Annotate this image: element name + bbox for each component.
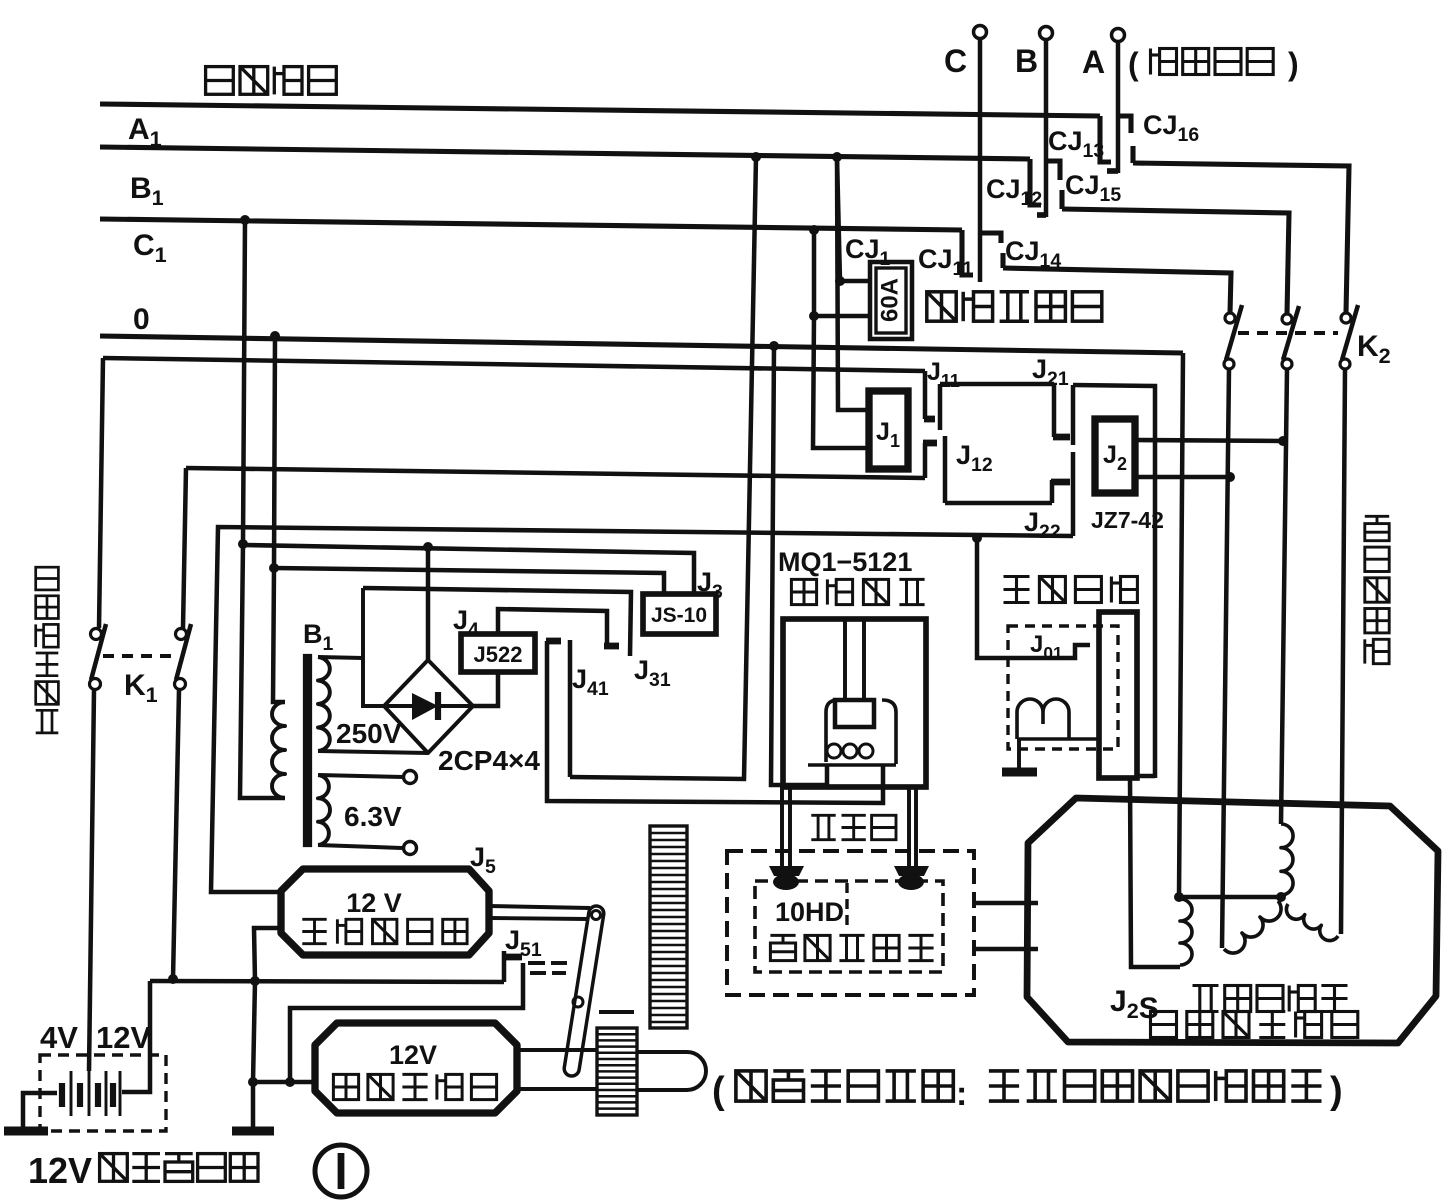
svg-text:250V: 250V bbox=[336, 718, 402, 749]
contact CJ15 bbox=[1046, 161, 1060, 180]
svg-text:12V: 12V bbox=[389, 1040, 437, 1070]
transformer 250V secondary bbox=[318, 657, 330, 751]
K1 linkage dashed bbox=[103, 654, 171, 658]
wire to ground bbox=[251, 1082, 256, 1128]
wire 0 drop to magnet coil bbox=[769, 341, 779, 351]
wire J2 coil top bbox=[1135, 440, 1283, 441]
wire B1 drop to J1 bbox=[813, 316, 869, 448]
wire K1-left upper bbox=[99, 358, 103, 628]
valve stem left bbox=[780, 787, 784, 866]
wire to starter motor bbox=[253, 981, 313, 1082]
diesel engine inner dashed box bbox=[755, 881, 943, 972]
valve head left bbox=[769, 866, 804, 876]
wire bridge DC out to J522 bbox=[473, 672, 498, 706]
svg-text:6.3V: 6.3V bbox=[344, 801, 402, 832]
wire ladder top edge bbox=[940, 382, 1054, 387]
relay J2 box bbox=[1095, 419, 1135, 493]
magnet plunger stem bbox=[843, 621, 847, 700]
ground battery bbox=[4, 1126, 48, 1135]
label: grid supply 电网供电 bbox=[206, 67, 337, 95]
wire J22 line to J5 bbox=[211, 527, 1073, 892]
relay contact J01 dashed box bbox=[1008, 626, 1118, 749]
svg-text:12V: 12V bbox=[28, 1150, 92, 1191]
wire bridge AC left riser bbox=[363, 588, 384, 706]
switch K2 pole 1 bbox=[1225, 313, 1235, 323]
contact J31 bbox=[604, 643, 619, 650]
contact CJ13 A-hook bbox=[1107, 168, 1118, 174]
svg-text:C: C bbox=[944, 43, 967, 79]
contact CJ14 bbox=[980, 233, 1001, 243]
pinion shaft capsule bbox=[637, 1052, 706, 1090]
wire ladder bottom edge bbox=[945, 501, 1052, 506]
wire 6.3V top lead bbox=[318, 775, 403, 777]
generator star point wire bbox=[1179, 895, 1281, 900]
contact J41 bbox=[546, 638, 561, 645]
wire A1 tap to 60A bbox=[832, 152, 842, 162]
wire bell bottom to J21 drop bbox=[1137, 774, 1155, 779]
transformer core bbox=[304, 655, 311, 846]
starter motor box bbox=[315, 1023, 517, 1113]
flywheel gear bbox=[650, 826, 687, 1028]
wire B1 line to JS-10 bbox=[244, 545, 694, 594]
terminal B bbox=[1040, 27, 1053, 40]
wire J5 to lever 1 bbox=[489, 906, 590, 908]
wire bus A1 bbox=[100, 147, 1030, 159]
label AC contactor 交流接触器 bbox=[927, 292, 1102, 321]
svg-text:B: B bbox=[1015, 43, 1038, 79]
svg-text:60A: 60A bbox=[876, 278, 903, 322]
contact CJ12 (bus A1 to load B) bbox=[1030, 159, 1041, 205]
label 高速柴油机 bbox=[770, 935, 933, 960]
svg-text:J522: J522 bbox=[474, 642, 523, 667]
switch K1 pole 2 bbox=[176, 629, 187, 640]
wire J522 top to J31 bbox=[498, 609, 607, 646]
wire K2-1 down to generator bbox=[1222, 369, 1229, 948]
wire 0 drop into generator bbox=[1179, 353, 1183, 897]
wire 250V bottom lead to bridge bbox=[318, 751, 428, 753]
wire J5 to lever 2 bbox=[489, 918, 587, 919]
wire load phase A drop bbox=[1116, 40, 1121, 173]
wire K2-2 down to generator bbox=[1281, 369, 1287, 824]
contact J12 bbox=[923, 440, 937, 447]
transformer 6.3V secondary bbox=[318, 775, 330, 845]
figure number 1 circled bbox=[315, 1145, 367, 1197]
svg-text:JS-10: JS-10 bbox=[651, 604, 707, 627]
contact J51 bbox=[502, 951, 507, 982]
svg-text:12V: 12V bbox=[96, 1020, 151, 1055]
wire A1 drop to J1 bbox=[837, 157, 869, 410]
contact J11 bbox=[923, 371, 928, 419]
wire CJ14 to K2 left bbox=[1003, 268, 1231, 313]
wire J21 to right drop bbox=[1073, 385, 1155, 778]
wire A1 drop to J41 bbox=[751, 152, 761, 162]
wire battery 12V line bbox=[150, 981, 504, 982]
wire K2-3 down to generator bbox=[1341, 369, 1345, 934]
relay J3 JS-10 box bbox=[643, 594, 716, 634]
battery dashed box bbox=[40, 1055, 166, 1131]
wire load phase C drop bbox=[978, 37, 983, 282]
svg-text:10HD: 10HD bbox=[775, 897, 844, 927]
svg-text:0: 0 bbox=[133, 303, 150, 336]
terminal C bbox=[974, 26, 987, 39]
wire K1-right feed to J12 bbox=[186, 468, 925, 478]
pinion travel mark bbox=[599, 1010, 634, 1014]
bridge rectifier diamond bbox=[384, 660, 473, 753]
wire B1 drop (transformer primary bottom) bbox=[240, 215, 250, 225]
battery cells bbox=[59, 1083, 65, 1107]
svg-text::: : bbox=[956, 1075, 967, 1113]
diode inside bridge bbox=[384, 704, 412, 708]
wire bus B1 bbox=[100, 219, 962, 230]
wire 0 line to JS-10 bbox=[274, 568, 664, 594]
wire K1-left to battery 4V tap bbox=[89, 690, 94, 1071]
bell coil bbox=[1017, 699, 1069, 739]
wire J2 coil bottom bbox=[1135, 475, 1230, 480]
valve stem right bbox=[907, 789, 911, 866]
magnet frame bbox=[783, 619, 926, 787]
valve head right bbox=[894, 866, 929, 876]
contact J22 bbox=[1050, 480, 1055, 503]
svg-text:12 V: 12 V bbox=[346, 888, 402, 918]
wire engine to generator bottom bbox=[974, 947, 1038, 952]
inner divider dashed bbox=[845, 883, 848, 930]
wire J51 to starter bbox=[290, 963, 523, 1082]
svg-text:(: ( bbox=[712, 1070, 725, 1112]
wire 250V top lead bbox=[318, 657, 363, 658]
wire B1 tap to 60A bbox=[809, 225, 819, 235]
wire J31 feed line bbox=[363, 588, 631, 656]
bell box bbox=[1099, 612, 1137, 778]
label 备用发电机 vertical bbox=[1365, 516, 1389, 663]
magnet coil loops bbox=[826, 700, 838, 762]
svg-text:): ) bbox=[1288, 46, 1299, 82]
generator winding D bbox=[1286, 904, 1338, 941]
J51 linkage dashes bbox=[528, 961, 545, 965]
wire bell bottom into generator bbox=[1130, 778, 1180, 967]
generator winding A bbox=[1180, 899, 1192, 965]
switch K2 pole 2 bbox=[1282, 314, 1292, 324]
label 牵引磁铁 bbox=[791, 579, 924, 604]
generator winding C bbox=[1281, 824, 1293, 895]
ground starter bbox=[232, 1126, 274, 1135]
svg-text:MQ1−5121: MQ1−5121 bbox=[778, 547, 912, 577]
label 排气门 bbox=[811, 815, 896, 839]
wire engine to generator top bbox=[974, 901, 1038, 906]
svg-text:4V: 4V bbox=[40, 1020, 78, 1055]
wire battery plus riser bbox=[122, 981, 150, 1092]
contact CJ13 (bus L1 to load A) bbox=[1100, 116, 1111, 162]
engagement lever bbox=[563, 905, 605, 1077]
wire 0 drop (transformer primary top) bbox=[270, 331, 280, 341]
wire starter shaft bottom bbox=[517, 1087, 597, 1091]
terminal A bbox=[1112, 29, 1125, 42]
svg-text:JZ7-42: JZ7-42 bbox=[1091, 507, 1164, 533]
generator body octagon bbox=[1027, 798, 1438, 1043]
contact J21 bbox=[1052, 384, 1057, 437]
wire K1-right upper bbox=[183, 468, 186, 628]
wire load phase B drop bbox=[1044, 38, 1049, 217]
wire starter shaft top bbox=[517, 1048, 597, 1052]
wire J5 coil 2 to battery line bbox=[254, 928, 281, 981]
pinion gear bbox=[597, 1028, 637, 1115]
K2 linkage dashed bbox=[1238, 331, 1338, 335]
ground below bell bbox=[1017, 739, 1021, 769]
contact CJ12 hook on B bbox=[1037, 212, 1046, 218]
svg-text:2CP4×4: 2CP4×4 bbox=[438, 745, 540, 776]
wire CJ16 to K2 right bbox=[1133, 163, 1349, 313]
relay J4 J522 box bbox=[461, 634, 535, 672]
switch K1 pole 1 bbox=[91, 629, 102, 640]
svg-text:(: ( bbox=[1128, 46, 1139, 82]
wire battery minus lead bbox=[23, 1093, 57, 1128]
transformer primary winding bbox=[272, 702, 285, 798]
contact CJ16 bbox=[1118, 116, 1131, 133]
wire bus 0 bbox=[100, 336, 1183, 353]
switch K2 pole 3 bbox=[1341, 313, 1351, 323]
wire J22-line to bell contact bbox=[977, 538, 1090, 658]
label 直流电铃 bbox=[1004, 577, 1138, 603]
relay J1 box bbox=[869, 391, 908, 469]
svg-text:A: A bbox=[1082, 44, 1105, 80]
fuse CJ1 60A box bbox=[870, 262, 912, 339]
contact CJ11 (bus B1 to load C) bbox=[962, 230, 973, 275]
wire K1-left feed to J11 bbox=[103, 358, 925, 371]
generator winding B bbox=[1224, 901, 1281, 953]
wire bridge AC top riser bbox=[423, 542, 433, 552]
label 自动控制闸刀 vertical bbox=[36, 567, 59, 733]
wire bus L1 (top grid line) bbox=[100, 104, 1100, 116]
magnet armature bbox=[835, 700, 874, 727]
wire 6.3V bottom lead bbox=[318, 845, 402, 848]
svg-text:): ) bbox=[1330, 1070, 1343, 1112]
wire K1-right to battery 12V bbox=[173, 690, 179, 979]
wire CJ15 to K2 middle bbox=[1062, 209, 1289, 314]
diesel engine outer dashed box bbox=[727, 851, 974, 995]
relay J5 box bbox=[281, 869, 489, 955]
